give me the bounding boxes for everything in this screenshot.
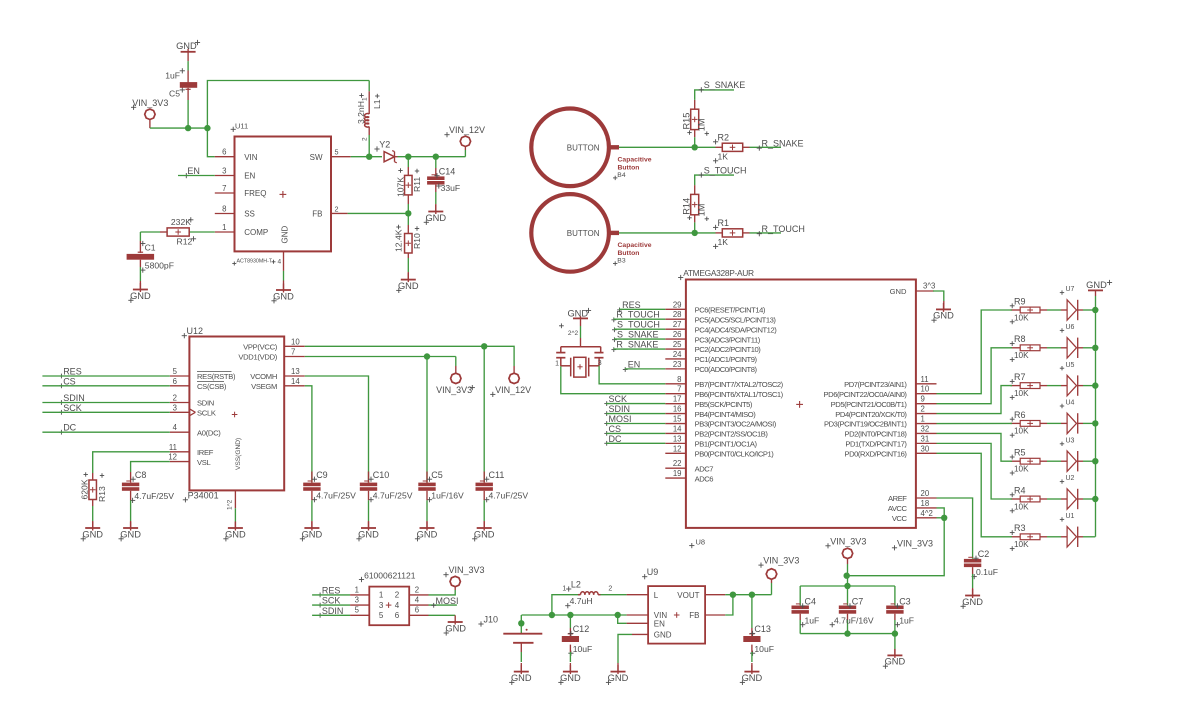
svg-text:MOSI: MOSI — [609, 414, 632, 424]
svg-text:4.7uF/25V: 4.7uF/25V — [134, 491, 174, 501]
svg-text:5800pF: 5800pF — [145, 261, 174, 271]
svg-text:1uF/16V: 1uF/16V — [431, 490, 464, 500]
svg-text:L2: L2 — [571, 580, 581, 590]
svg-text:3^3: 3^3 — [923, 281, 935, 290]
svg-text:C14: C14 — [439, 166, 456, 176]
svg-text:AREF: AREF — [888, 494, 907, 503]
svg-text:EN: EN — [244, 172, 255, 181]
svg-text:12.4K: 12.4K — [394, 229, 404, 252]
svg-text:GND: GND — [962, 597, 983, 607]
svg-text:PB6(PCINT6/XTAL1/TOSC1): PB6(PCINT6/XTAL1/TOSC1) — [695, 390, 784, 399]
svg-text:PD1(TXD/PCINT17): PD1(TXD/PCINT17) — [845, 440, 907, 449]
svg-text:GND: GND — [225, 529, 246, 539]
svg-text:SCK: SCK — [609, 394, 628, 404]
svg-text:VSEGM: VSEGM — [251, 382, 277, 391]
svg-text:SDIN: SDIN — [197, 399, 214, 408]
svg-text:FREQ: FREQ — [244, 189, 266, 198]
svg-text:PC4(ADC4/SDA/PCINT12): PC4(ADC4/SDA/PCINT12) — [695, 325, 778, 334]
svg-text:232K: 232K — [171, 217, 191, 227]
svg-text:GND: GND — [560, 673, 581, 683]
svg-text:GND: GND — [120, 529, 141, 539]
svg-text:GND: GND — [890, 287, 907, 296]
svg-text:8: 8 — [222, 205, 226, 214]
svg-text:SDIN: SDIN — [63, 393, 85, 403]
svg-text:10K: 10K — [1014, 389, 1029, 398]
svg-text:GND: GND — [130, 291, 151, 301]
svg-text:R15: R15 — [682, 113, 692, 130]
svg-text:S_TOUCH: S_TOUCH — [704, 165, 747, 175]
svg-text:PD6(PCINT22/OC0A/AIN0): PD6(PCINT22/OC0A/AIN0) — [824, 390, 908, 399]
svg-text:R9: R9 — [1014, 296, 1026, 306]
svg-text:U4: U4 — [1066, 400, 1075, 407]
svg-text:R11: R11 — [412, 177, 422, 192]
svg-text:1: 1 — [379, 591, 384, 600]
svg-text:R13: R13 — [97, 486, 107, 502]
svg-text:4: 4 — [173, 423, 178, 432]
svg-text:30: 30 — [921, 444, 930, 453]
svg-text:PC2(ADC2/PCINT10): PC2(ADC2/PCINT10) — [695, 345, 762, 354]
svg-text:P34001: P34001 — [188, 490, 219, 500]
svg-text:VIN_3V3: VIN_3V3 — [830, 536, 866, 546]
svg-text:R14: R14 — [682, 198, 692, 215]
svg-text:17: 17 — [673, 395, 682, 404]
svg-text:R_SNAKE: R_SNAKE — [616, 340, 658, 350]
svg-text:SW: SW — [310, 153, 323, 162]
svg-text:U6: U6 — [1066, 324, 1075, 331]
svg-text:13: 13 — [673, 434, 682, 443]
svg-text:GND: GND — [176, 41, 197, 51]
svg-text:14: 14 — [291, 377, 300, 386]
svg-text:PB4(PCINT4/MISO): PB4(PCINT4/MISO) — [695, 410, 757, 419]
svg-text:6: 6 — [395, 611, 400, 620]
svg-text:24: 24 — [673, 350, 682, 359]
svg-text:GND: GND — [654, 630, 672, 639]
svg-text:PC0(ADC0/PCINT8): PC0(ADC0/PCINT8) — [695, 365, 758, 374]
svg-text:3: 3 — [379, 601, 384, 610]
svg-text:R_TOUCH: R_TOUCH — [762, 224, 805, 234]
svg-text:3: 3 — [598, 360, 602, 367]
svg-text:12: 12 — [168, 453, 177, 462]
svg-text:GND: GND — [358, 529, 379, 539]
svg-text:4.7uH: 4.7uH — [570, 596, 593, 606]
svg-text:1^2: 1^2 — [227, 499, 234, 510]
svg-text:ADC6: ADC6 — [695, 474, 714, 483]
svg-text:U2: U2 — [1066, 475, 1075, 482]
svg-text:1: 1 — [555, 361, 559, 368]
svg-text:10uF: 10uF — [754, 644, 774, 654]
svg-text:R5: R5 — [1014, 448, 1026, 458]
svg-text:MOSI: MOSI — [436, 596, 459, 606]
svg-text:C13: C13 — [754, 624, 771, 634]
svg-text:PC3(ADC3/PCINT11): PC3(ADC3/PCINT11) — [695, 335, 761, 344]
svg-text:SCK: SCK — [322, 596, 341, 606]
svg-text:10: 10 — [921, 385, 930, 394]
svg-text:3.2nH: 3.2nH — [356, 101, 366, 124]
svg-text:PD3(PCINT19/OC2B/INT1): PD3(PCINT19/OC2B/INT1) — [824, 420, 907, 429]
svg-text:Button: Button — [618, 250, 640, 257]
svg-text:GND: GND — [885, 657, 906, 667]
svg-text:23: 23 — [673, 360, 682, 369]
svg-text:VIN_12V: VIN_12V — [495, 385, 531, 395]
svg-text:9: 9 — [921, 395, 925, 404]
svg-text:1K: 1K — [718, 151, 729, 161]
svg-text:PB5(SCK/PCINT5): PB5(SCK/PCINT5) — [695, 400, 753, 409]
svg-text:R12: R12 — [177, 236, 193, 246]
svg-text:ACT8930MH-T: ACT8930MH-T — [237, 258, 273, 264]
svg-text:PD5(PCINT21/OC0B/T1): PD5(PCINT21/OC0B/T1) — [831, 400, 908, 409]
svg-text:28: 28 — [673, 310, 682, 319]
svg-text:C1: C1 — [145, 242, 156, 252]
svg-text:1uF: 1uF — [899, 615, 914, 625]
svg-text:5: 5 — [379, 611, 384, 620]
svg-text:C8: C8 — [135, 470, 147, 480]
svg-text:1M: 1M — [697, 204, 707, 217]
svg-text:CS(CSB): CS(CSB) — [197, 382, 227, 391]
svg-text:PD7(PCINT23/AIN1): PD7(PCINT23/AIN1) — [844, 380, 907, 389]
svg-text:14: 14 — [673, 424, 682, 433]
svg-text:Capacitive: Capacitive — [618, 242, 652, 249]
svg-text:20: 20 — [921, 489, 930, 498]
svg-text:VIN_3V3: VIN_3V3 — [132, 98, 168, 108]
svg-text:10uF: 10uF — [573, 644, 593, 654]
svg-text:AVCC: AVCC — [888, 504, 908, 513]
svg-text:PB2(PCINT2/SS/OC1B): PB2(PCINT2/SS/OC1B) — [695, 430, 769, 439]
svg-text:VSL: VSL — [197, 458, 211, 467]
svg-text:GND: GND — [933, 311, 954, 321]
svg-text:C10: C10 — [373, 470, 390, 480]
svg-text:22: 22 — [673, 459, 682, 468]
svg-text:RES: RES — [622, 300, 641, 310]
svg-text:VIN_3V3: VIN_3V3 — [763, 556, 799, 566]
svg-text:SS: SS — [244, 210, 255, 219]
svg-text:GND: GND — [82, 529, 103, 539]
svg-text:SCLK: SCLK — [197, 409, 216, 418]
svg-text:PC1(ADC1/PCINT9): PC1(ADC1/PCINT9) — [695, 355, 758, 364]
svg-text:CS: CS — [609, 424, 622, 434]
svg-text:R10: R10 — [412, 233, 422, 249]
svg-text:EN: EN — [654, 620, 665, 629]
svg-text:C3: C3 — [899, 597, 911, 607]
svg-text:0.1uF: 0.1uF — [976, 567, 998, 577]
svg-text:10K: 10K — [1014, 465, 1029, 474]
svg-text:4^2: 4^2 — [921, 509, 933, 518]
svg-text:2: 2 — [173, 394, 177, 403]
svg-text:R2: R2 — [718, 132, 730, 142]
svg-text:6: 6 — [415, 606, 419, 615]
svg-text:GND: GND — [567, 309, 588, 319]
svg-text:GND: GND — [273, 291, 294, 301]
svg-text:GND: GND — [302, 529, 323, 539]
svg-text:1: 1 — [355, 585, 359, 594]
svg-text:U12: U12 — [187, 326, 204, 336]
svg-text:FB: FB — [689, 611, 699, 620]
svg-text:C9: C9 — [316, 470, 328, 480]
svg-text:10K: 10K — [1014, 540, 1029, 549]
svg-text:B3: B3 — [617, 258, 626, 265]
svg-text:4: 4 — [278, 258, 282, 265]
svg-text:2^2: 2^2 — [568, 330, 579, 337]
svg-text:R3: R3 — [1014, 523, 1026, 533]
svg-text:PB0(PCINT0/CLKO/ICP1): PB0(PCINT0/CLKO/ICP1) — [695, 450, 775, 459]
svg-text:PD2(INT0/PCINT18): PD2(INT0/PCINT18) — [845, 430, 908, 439]
svg-text:R4: R4 — [1014, 485, 1026, 495]
svg-text:U7: U7 — [1066, 286, 1075, 293]
svg-text:1: 1 — [222, 223, 226, 232]
svg-text:8: 8 — [677, 375, 681, 384]
svg-text:U11: U11 — [235, 121, 248, 130]
svg-text:U5: U5 — [1066, 362, 1075, 369]
svg-text:VSS(GND): VSS(GND) — [235, 438, 242, 470]
svg-text:GND: GND — [398, 281, 419, 291]
svg-text:B4: B4 — [617, 172, 626, 179]
svg-text:IREF: IREF — [197, 448, 214, 457]
svg-text:SDIN: SDIN — [322, 606, 344, 616]
svg-text:PC5(ADC5/SCL/PCINT13): PC5(ADC5/SCL/PCINT13) — [695, 315, 777, 324]
svg-text:PD0(RXD/PCINT16): PD0(RXD/PCINT16) — [844, 450, 907, 459]
svg-text:10K: 10K — [1014, 351, 1029, 360]
svg-text:12: 12 — [673, 444, 682, 453]
svg-text:EN: EN — [187, 166, 200, 176]
svg-text:R6: R6 — [1014, 410, 1026, 420]
svg-text:R_SNAKE: R_SNAKE — [762, 139, 804, 149]
svg-text:VIN: VIN — [244, 153, 258, 162]
svg-text:C5: C5 — [169, 89, 180, 99]
svg-text:107K: 107K — [395, 177, 405, 197]
svg-text:R1: R1 — [718, 218, 730, 228]
svg-text:VIN_3V3: VIN_3V3 — [436, 385, 472, 395]
svg-text:10K: 10K — [1014, 313, 1029, 322]
svg-text:C7: C7 — [852, 597, 864, 607]
svg-text:7: 7 — [291, 348, 295, 357]
svg-text:Capacitive: Capacitive — [618, 157, 652, 164]
svg-text:GND: GND — [425, 213, 446, 223]
svg-text:GND: GND — [608, 673, 629, 683]
svg-text:2: 2 — [395, 591, 400, 600]
svg-text:VIN_3V3: VIN_3V3 — [897, 538, 933, 548]
svg-text:Button: Button — [618, 165, 640, 172]
svg-text:11: 11 — [169, 443, 177, 452]
svg-text:6: 6 — [173, 377, 177, 386]
svg-text:BUTTON: BUTTON — [567, 144, 600, 153]
svg-text:VIN_3V3: VIN_3V3 — [449, 565, 485, 575]
svg-text:2: 2 — [415, 585, 419, 594]
svg-text:GND: GND — [281, 226, 290, 244]
svg-text:2: 2 — [921, 405, 925, 414]
svg-text:5: 5 — [355, 606, 360, 615]
svg-text:1: 1 — [921, 415, 925, 424]
svg-text:SCK: SCK — [63, 403, 82, 413]
svg-text:C11: C11 — [489, 470, 505, 480]
svg-text:10K: 10K — [1014, 427, 1029, 436]
svg-text:BUTTON: BUTTON — [567, 229, 600, 238]
svg-text:VOUT: VOUT — [677, 591, 699, 600]
svg-text:2: 2 — [362, 137, 369, 141]
svg-text:4.7uF/25V: 4.7uF/25V — [489, 490, 529, 500]
svg-text:7: 7 — [222, 184, 226, 193]
svg-text:2: 2 — [335, 205, 339, 214]
svg-text:19: 19 — [673, 469, 682, 478]
svg-text:PB1(PCINT1/OC1A): PB1(PCINT1/OC1A) — [695, 440, 758, 449]
svg-text:EN: EN — [628, 359, 641, 369]
svg-text:5: 5 — [173, 367, 178, 376]
svg-text:GND: GND — [445, 624, 466, 634]
svg-text:1uF: 1uF — [165, 70, 180, 80]
svg-text:15: 15 — [673, 415, 682, 424]
svg-text:RES(RSTB): RES(RSTB) — [197, 372, 236, 381]
svg-text:RES: RES — [322, 585, 341, 595]
svg-text:U1: U1 — [1066, 513, 1075, 520]
svg-text:C12: C12 — [573, 624, 590, 634]
svg-text:61000621121: 61000621121 — [364, 570, 416, 580]
svg-text:GND: GND — [742, 673, 763, 683]
svg-text:U9: U9 — [647, 567, 659, 577]
svg-text:33uF: 33uF — [441, 183, 461, 193]
svg-text:4: 4 — [395, 601, 400, 610]
svg-text:PD4(PCINT20/XCK/T0): PD4(PCINT20/XCK/T0) — [835, 410, 907, 419]
svg-text:PB3(PCINT3/OC2A/MOSI): PB3(PCINT3/OC2A/MOSI) — [695, 420, 777, 429]
svg-text:CS: CS — [63, 376, 76, 386]
svg-text:Y2: Y2 — [379, 140, 390, 150]
svg-text:L1: L1 — [372, 99, 382, 109]
svg-text:25: 25 — [673, 340, 682, 349]
svg-text:L: L — [654, 591, 659, 600]
svg-text:GND: GND — [417, 529, 438, 539]
svg-text:VCOMH: VCOMH — [250, 372, 277, 381]
svg-text:1M: 1M — [697, 118, 707, 131]
svg-text:11: 11 — [921, 375, 929, 384]
svg-text:1: 1 — [562, 585, 566, 592]
svg-text:1K: 1K — [718, 237, 729, 247]
svg-text:S_SNAKE: S_SNAKE — [704, 80, 746, 90]
svg-text:5: 5 — [335, 148, 339, 157]
svg-text:26: 26 — [673, 330, 682, 339]
svg-text:4.7uF/16V: 4.7uF/16V — [834, 615, 874, 625]
svg-text:VCC: VCC — [892, 514, 908, 523]
svg-text:13: 13 — [291, 367, 300, 376]
svg-text:31: 31 — [921, 434, 930, 443]
svg-text:A0(DC): A0(DC) — [197, 428, 221, 437]
svg-text:U8: U8 — [696, 537, 706, 546]
svg-text:6: 6 — [222, 148, 226, 157]
svg-text:R8: R8 — [1014, 334, 1026, 344]
svg-text:SDIN: SDIN — [609, 404, 631, 414]
svg-text:3: 3 — [173, 403, 177, 412]
svg-text:S_SNAKE: S_SNAKE — [617, 330, 659, 340]
svg-text:GND: GND — [511, 673, 532, 683]
svg-text:DC: DC — [63, 423, 76, 433]
svg-text:PC6(RESET/PCINT14): PC6(RESET/PCINT14) — [695, 306, 766, 315]
svg-text:DC: DC — [609, 434, 622, 444]
svg-text:3: 3 — [222, 167, 226, 176]
svg-text:R_TOUCH: R_TOUCH — [616, 310, 659, 320]
svg-text:ADC7: ADC7 — [695, 464, 714, 473]
svg-text:2: 2 — [608, 585, 612, 592]
svg-text:VIN_12V: VIN_12V — [449, 125, 485, 135]
svg-text:1uF: 1uF — [805, 615, 820, 625]
svg-text:27: 27 — [673, 320, 682, 329]
svg-text:7: 7 — [677, 385, 681, 394]
svg-text:ATMEGA328P-AUR: ATMEGA328P-AUR — [683, 268, 754, 278]
svg-text:18: 18 — [921, 499, 930, 508]
svg-text:10: 10 — [291, 337, 300, 346]
svg-text:PB7(PCINT7/XTAL2/TOSC2): PB7(PCINT7/XTAL2/TOSC2) — [695, 380, 784, 389]
svg-text:C5: C5 — [431, 470, 443, 480]
svg-text:VDD1(VDD): VDD1(VDD) — [238, 353, 277, 362]
svg-text:29: 29 — [673, 300, 682, 309]
svg-text:620K: 620K — [79, 479, 89, 499]
svg-text:VPP(VCC): VPP(VCC) — [243, 343, 278, 352]
svg-text:RES: RES — [63, 367, 82, 377]
svg-text:COMP: COMP — [244, 228, 268, 237]
svg-text:C2: C2 — [978, 549, 990, 559]
svg-text:1: 1 — [362, 97, 369, 101]
svg-text:4.7uF/25V: 4.7uF/25V — [316, 490, 356, 500]
svg-text:FB: FB — [312, 210, 322, 219]
svg-text:16: 16 — [673, 405, 682, 414]
svg-text:3: 3 — [355, 596, 359, 605]
svg-text:S_TOUCH: S_TOUCH — [617, 320, 660, 330]
svg-text:GND: GND — [1086, 280, 1107, 290]
svg-text:GND: GND — [474, 529, 495, 539]
svg-text:10K: 10K — [1014, 502, 1029, 511]
svg-text:32: 32 — [921, 424, 930, 433]
svg-text:R7: R7 — [1014, 372, 1026, 382]
svg-text:4: 4 — [415, 596, 420, 605]
svg-text:U3: U3 — [1066, 437, 1075, 444]
svg-text:J10: J10 — [484, 615, 499, 625]
svg-text:C4: C4 — [805, 597, 817, 607]
svg-text:4.7uF/25V: 4.7uF/25V — [373, 490, 413, 500]
